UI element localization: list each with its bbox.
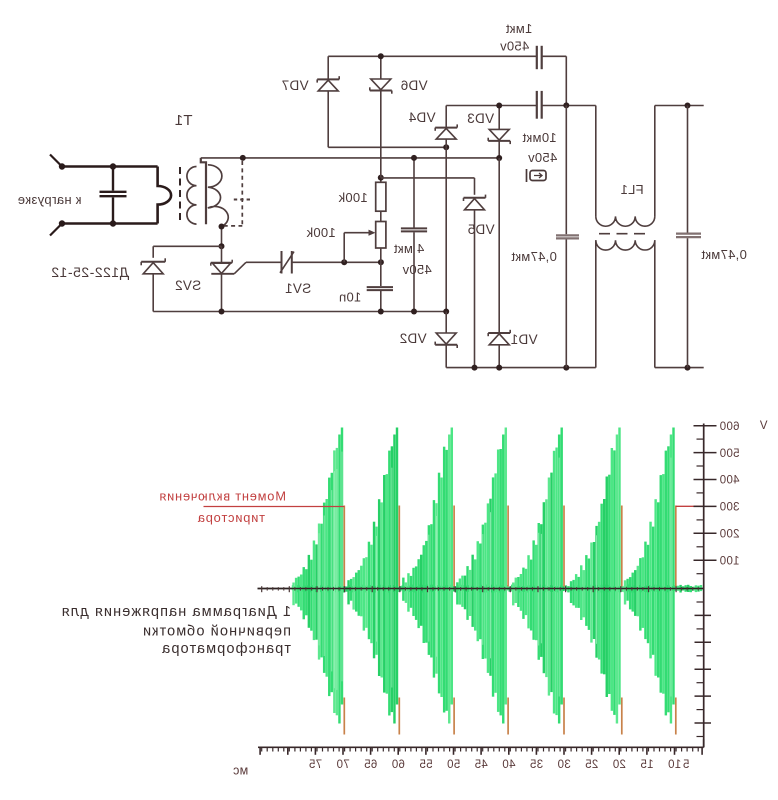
svg-text:20: 20 xyxy=(612,759,625,771)
node cap right rail xyxy=(685,365,691,371)
node VD2 top xyxy=(443,309,449,315)
y axis xyxy=(703,424,705,748)
node VD1 rail xyxy=(496,365,502,371)
label 1mkt xyxy=(506,21,533,36)
label V xyxy=(759,420,767,432)
svg-text:Момент включения: Момент включения xyxy=(159,489,286,504)
svg-text:450v: 450v xyxy=(402,262,432,277)
label VD5 xyxy=(467,222,494,237)
node resistor top xyxy=(378,175,384,181)
wire box bottom xyxy=(328,146,446,148)
wire load top xyxy=(62,165,158,168)
polarity icon xyxy=(527,169,547,182)
waveform green bars xyxy=(292,428,702,724)
capacitor 0,47mkt right xyxy=(676,106,701,368)
svg-text:65: 65 xyxy=(364,759,377,771)
diode VD1 xyxy=(488,330,510,368)
svg-text:VD5: VD5 xyxy=(467,222,494,237)
svg-text:100: 100 xyxy=(719,555,739,567)
svg-text:к нагрузке: к нагрузке xyxy=(17,192,81,207)
diode VD3 xyxy=(488,106,510,159)
svg-text:1 Диаграмма напряжения для: 1 Диаграмма напряжения для xyxy=(61,604,291,620)
svg-text:200: 200 xyxy=(719,529,739,541)
node VD6 top xyxy=(378,53,384,59)
svg-text:трансформатора: трансформатора xyxy=(161,641,291,657)
node SV2 anode xyxy=(219,243,225,249)
svg-text:VD6: VD6 xyxy=(400,78,427,93)
svg-text:400: 400 xyxy=(719,475,739,487)
label к нагрузке xyxy=(17,192,81,207)
svg-text:10: 10 xyxy=(668,759,681,771)
label 10n xyxy=(339,290,362,305)
label T1 xyxy=(174,112,192,129)
chart zero axis line overlay xyxy=(258,588,704,590)
label Момент включения xyxy=(159,489,286,504)
potentiometer 100k xyxy=(376,222,386,263)
label 100k pot xyxy=(306,225,336,240)
svg-text:VD1: VD1 xyxy=(510,332,537,347)
label 450v (4mkt) xyxy=(402,262,432,277)
svg-text:4 мкt: 4 мкt xyxy=(394,241,425,256)
capacitor 4mkt xyxy=(401,158,427,312)
label 10mkt xyxy=(522,130,556,145)
label Д122-25-12 xyxy=(51,264,129,280)
svg-text:500: 500 xyxy=(719,448,739,460)
wire bottom rail left xyxy=(446,367,596,369)
svg-text:450v: 450v xyxy=(500,39,530,54)
chart caption line 2 xyxy=(142,624,291,640)
node transformer top xyxy=(240,155,246,161)
node VD3 top xyxy=(496,103,502,109)
wire top box xyxy=(328,56,566,105)
label VD6 xyxy=(400,78,427,93)
svg-text:300: 300 xyxy=(719,502,739,514)
node 10n bottom xyxy=(378,309,384,315)
thyristor firing orange lines xyxy=(344,506,676,735)
capacitor 0,47mkt left xyxy=(556,105,579,367)
wire VD5 top xyxy=(381,177,475,179)
wire main top (transformer to VD3) xyxy=(201,157,499,159)
transformer T1 xyxy=(180,158,228,227)
svg-text:100k: 100k xyxy=(306,225,336,240)
capacitor load xyxy=(100,163,127,226)
svg-text:SV1: SV1 xyxy=(285,281,311,296)
label 0,47mkt left xyxy=(511,249,557,264)
label SV1 xyxy=(285,281,311,296)
wire mid top (to FL1) xyxy=(446,105,596,107)
diode VD4 xyxy=(435,106,457,148)
svg-text:40: 40 xyxy=(502,759,515,771)
svg-text:45: 45 xyxy=(474,759,487,771)
diode VD6 xyxy=(370,56,392,177)
svg-text:30: 30 xyxy=(557,759,570,771)
label ms xyxy=(233,763,248,777)
label VD4 xyxy=(408,110,435,125)
node pot bottom xyxy=(378,259,384,265)
diode VD2 xyxy=(435,312,457,368)
label 450v (10mkt) xyxy=(528,150,558,165)
red callout line left xyxy=(204,506,345,508)
label тиристора xyxy=(197,510,265,525)
svg-text:75: 75 xyxy=(309,759,322,771)
chart caption line 1 xyxy=(61,604,291,620)
wire wiper xyxy=(344,230,375,263)
label VD1 xyxy=(510,332,537,347)
svg-text:0,47мкt: 0,47мкt xyxy=(701,247,747,262)
capacitor 10n xyxy=(367,262,393,311)
label VD2 xyxy=(399,331,426,346)
node VD4 bottom xyxy=(443,144,449,150)
wire VD4-VD2 column xyxy=(445,147,447,311)
zener VD5 xyxy=(464,178,486,368)
wire bottom rail right xyxy=(655,367,704,369)
chart zero axis line xyxy=(258,588,704,590)
svg-text:10n: 10n xyxy=(339,290,362,305)
svg-text:100k: 100k xyxy=(338,190,368,205)
node wiper junction xyxy=(341,259,347,265)
svg-text:10мкt: 10мкt xyxy=(522,130,556,145)
capacitor 10mkt xyxy=(537,91,542,119)
wire SV1 to node xyxy=(292,261,381,263)
wire SV2 gate xyxy=(246,261,281,263)
svg-text:тиристора: тиристора xyxy=(197,510,265,525)
svg-text:55: 55 xyxy=(419,759,432,771)
y axis ticks and labels xyxy=(694,421,740,737)
node cap right top xyxy=(685,103,691,109)
wire to diode branch xyxy=(153,245,221,247)
svg-text:70: 70 xyxy=(336,759,349,771)
node cap left top xyxy=(563,102,569,108)
svg-text:0,47мкt: 0,47мкt xyxy=(511,249,557,264)
wire transformer bottom lead xyxy=(221,227,223,247)
svg-text:VD7: VD7 xyxy=(281,78,308,93)
svg-text:V: V xyxy=(759,420,767,432)
label 450v (1mkt) xyxy=(500,39,530,54)
load terminal top xyxy=(50,155,65,170)
wire top right stub xyxy=(655,105,704,107)
label SV2 xyxy=(175,278,201,293)
svg-text:первичной обмотки: первичной обмотки xyxy=(142,624,291,640)
label 0,47mkt right xyxy=(701,247,747,262)
node VD5 rail xyxy=(472,365,478,371)
svg-text:600: 600 xyxy=(719,421,739,433)
svg-text:15: 15 xyxy=(640,759,653,771)
svg-text:Д122-25-12: Д122-25-12 xyxy=(51,264,129,280)
zener VD7 xyxy=(317,56,339,147)
node 4mkt bottom xyxy=(411,309,417,315)
svg-text:VD3: VD3 xyxy=(467,111,494,126)
red callout line right xyxy=(676,505,704,507)
node SV2 cathode xyxy=(219,309,225,315)
label VD3 xyxy=(467,111,494,126)
node cap left rail xyxy=(563,365,569,371)
svg-text:VD4: VD4 xyxy=(408,110,435,125)
node winding bottom xyxy=(219,224,225,230)
bottom axis labels xyxy=(309,759,690,771)
wire load bottom xyxy=(62,222,158,225)
wire VD3-VD1 column xyxy=(498,158,500,333)
wire control bottom xyxy=(153,311,446,313)
svg-text:VD2: VD2 xyxy=(399,331,426,346)
bottom axis ticks xyxy=(260,747,702,755)
resistor 100k xyxy=(376,178,386,222)
svg-text:25: 25 xyxy=(585,759,598,771)
label 4 mkt xyxy=(394,241,425,256)
svg-text:1мкt: 1мкt xyxy=(506,21,533,36)
svg-text:50: 50 xyxy=(447,759,460,771)
label VD7 xyxy=(281,78,308,93)
svg-text:T1: T1 xyxy=(174,112,192,129)
thyristor SV2 xyxy=(211,246,246,311)
bottom time axis xyxy=(258,739,704,747)
svg-text:мс: мс xyxy=(233,763,248,777)
diode Д122-25-12 xyxy=(141,246,165,311)
load terminal bottom xyxy=(50,220,65,235)
svg-text:60: 60 xyxy=(391,759,404,771)
svg-text:SV2: SV2 xyxy=(175,278,201,293)
svg-text:35: 35 xyxy=(530,759,543,771)
diac SV1 xyxy=(280,251,294,274)
chart caption line 3 xyxy=(161,641,291,657)
svg-text:450v: 450v xyxy=(528,150,558,165)
node 4mkt top xyxy=(411,155,417,161)
svg-text:5: 5 xyxy=(683,759,690,771)
label FL1 xyxy=(620,182,643,197)
zero axis ticks xyxy=(262,586,704,592)
svg-text:FL1: FL1 xyxy=(620,182,643,197)
load loop right edge with bump xyxy=(158,167,172,224)
filter FL1 xyxy=(596,106,655,368)
capacitor 1mkt xyxy=(537,46,542,69)
label 100k resistor xyxy=(338,190,368,205)
dashed adjustment box xyxy=(224,161,251,226)
node VD3 bottom xyxy=(496,155,502,161)
